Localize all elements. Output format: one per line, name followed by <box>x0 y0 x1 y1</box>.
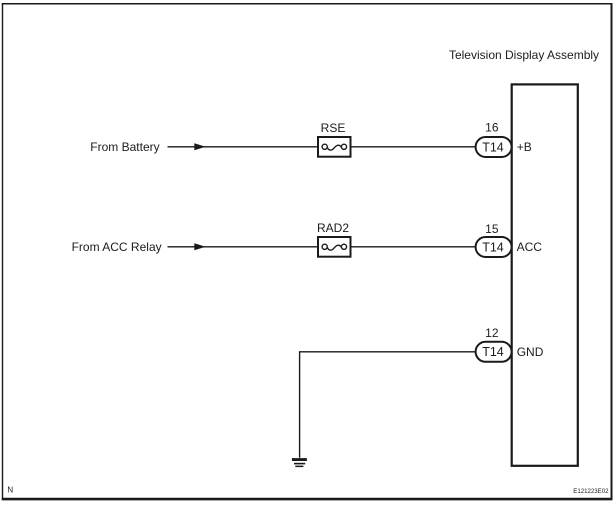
svg-text:15: 15 <box>485 222 499 236</box>
wire ground to connector T14 pin 12 <box>300 352 476 458</box>
svg-text:+B: +B <box>517 140 532 154</box>
svg-text:From ACC Relay: From ACC Relay <box>72 240 162 254</box>
svg-text:GND: GND <box>517 345 544 359</box>
wire fuse RSE to connector T14 pin 16 <box>351 146 477 148</box>
Television Display Assembly box <box>512 84 578 465</box>
svg-text:ACC: ACC <box>517 240 543 254</box>
wire fuse RAD2 to connector T14 pin 15 <box>351 246 477 248</box>
connector T14 pin 16 <box>476 137 512 157</box>
fuse RSE <box>318 137 351 157</box>
svg-text:12: 12 <box>485 326 499 340</box>
wire From ACC Relay to fuse RAD2 with arrow <box>168 243 318 250</box>
fuse RAD2 <box>318 237 351 257</box>
svg-text:T14: T14 <box>482 240 504 254</box>
svg-text:N: N <box>7 485 13 494</box>
svg-text:T14: T14 <box>482 345 504 359</box>
wire From Battery to fuse RSE with arrow <box>168 143 318 150</box>
connector T14 pin 15 <box>476 237 512 257</box>
svg-text:16: 16 <box>485 120 499 134</box>
svg-text:From Battery: From Battery <box>90 140 159 154</box>
svg-text:RAD2: RAD2 <box>317 221 349 235</box>
svg-text:T14: T14 <box>482 140 504 154</box>
svg-text:E121223E02: E121223E02 <box>573 488 609 495</box>
svg-text:RSE: RSE <box>321 121 346 135</box>
ground <box>292 458 307 467</box>
connector T14 pin 12 <box>476 342 512 362</box>
svg-text:Television Display Assembly: Television Display Assembly <box>449 48 599 62</box>
